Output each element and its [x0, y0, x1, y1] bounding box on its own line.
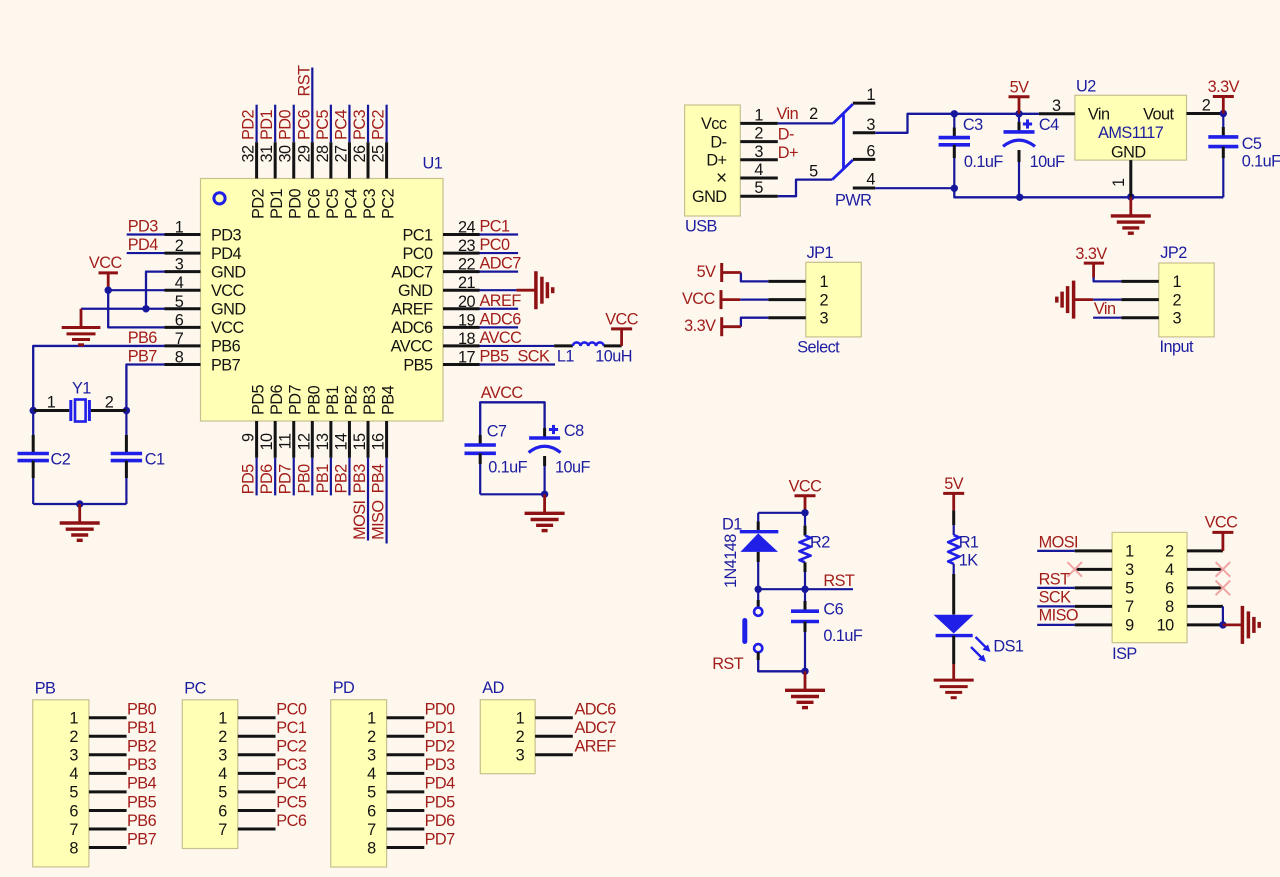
svg-text:PC6: PC6: [305, 188, 323, 219]
svg-text:MOSI: MOSI: [351, 500, 369, 539]
svg-text:32: 32: [240, 145, 258, 163]
U1 pin 21 GND (right): [398, 274, 480, 300]
wire C7 C8 to ground: [480, 493, 544, 495]
svg-text:AVCC: AVCC: [391, 338, 434, 356]
svg-text:5: 5: [218, 784, 227, 802]
capacitor C5: [1208, 114, 1280, 198]
svg-text:2: 2: [1173, 291, 1182, 309]
svg-text:VCC: VCC: [605, 310, 639, 328]
svg-text:4: 4: [69, 765, 78, 783]
svg-text:31: 31: [258, 145, 276, 163]
svg-text:VCC: VCC: [211, 319, 245, 337]
PC pin 5 PC4: [218, 775, 307, 802]
connector USB body: [685, 105, 741, 216]
svg-text:Vcc: Vcc: [701, 115, 727, 133]
U2 pin 1 GND wire: [1110, 160, 1131, 197]
junction ISP ground: [1219, 621, 1226, 628]
power VCC (reset): [789, 477, 823, 513]
JP1 pin 3: [768, 310, 828, 328]
svg-text:ADC7: ADC7: [480, 255, 522, 273]
AD pin 1 ADC6: [516, 701, 617, 728]
svg-text:2: 2: [218, 728, 227, 746]
svg-text:PD6: PD6: [268, 384, 286, 415]
svg-text:4: 4: [175, 274, 184, 292]
PB pin 1 PB0: [69, 701, 156, 728]
wire JP2 pin2 to ground: [1093, 299, 1121, 301]
svg-text:PB4: PB4: [127, 775, 157, 793]
switch pin 4: [853, 170, 876, 188]
svg-text:PB7: PB7: [211, 356, 241, 374]
JP2 pin 1: [1121, 273, 1181, 291]
svg-text:7: 7: [367, 821, 376, 839]
svg-text:PC5: PC5: [276, 793, 307, 811]
U1 pin 10 PD6 (bottom): [258, 384, 286, 457]
net label D-: [778, 126, 794, 144]
svg-text:PB5: PB5: [480, 347, 510, 365]
svg-text:19: 19: [458, 311, 476, 329]
U1 pin 7 PB6 (left): [165, 330, 241, 356]
U1 pin 23 PC0 (right): [402, 236, 510, 263]
wire net PD0 (U1 top pin 30): [277, 105, 295, 143]
power 3.3V (Vout): [1208, 78, 1240, 114]
capacitor C2: [18, 411, 71, 505]
wire net PB0 (U1 bottom pin 12): [295, 458, 313, 496]
svg-text:27: 27: [332, 145, 350, 163]
wire net PC2 (U1 top pin 25): [370, 105, 388, 143]
svg-text:U2: U2: [1076, 77, 1096, 95]
svg-text:3: 3: [516, 747, 525, 765]
svg-text:1: 1: [754, 106, 763, 124]
svg-text:AVCC: AVCC: [481, 384, 524, 402]
svg-text:USB: USB: [685, 218, 717, 236]
svg-text:C6: C6: [823, 601, 843, 619]
wire net SCK (U1 pin 17): [480, 347, 556, 365]
svg-text:7: 7: [69, 821, 78, 839]
svg-text:SCK: SCK: [518, 347, 551, 365]
svg-text:MOSI: MOSI: [1039, 534, 1078, 552]
svg-text:PB4: PB4: [380, 385, 398, 415]
svg-text:PB7: PB7: [127, 830, 157, 848]
svg-text:PB3: PB3: [351, 464, 369, 494]
wire crystal caps to ground: [33, 503, 126, 505]
svg-text:4: 4: [1165, 561, 1174, 579]
svg-text:6: 6: [866, 142, 875, 160]
svg-text:29: 29: [295, 145, 313, 163]
svg-text:7: 7: [218, 821, 227, 839]
svg-text:JP2: JP2: [1160, 244, 1187, 262]
svg-text:4: 4: [866, 170, 875, 188]
svg-text:R2: R2: [810, 534, 830, 552]
svg-text:5V: 5V: [944, 475, 964, 493]
svg-text:18: 18: [458, 330, 476, 348]
wire net PB7 (U1 pin 8): [126, 347, 164, 410]
wire net PD6 (U1 bottom pin 10): [258, 458, 276, 496]
svg-text:PC3: PC3: [361, 188, 379, 219]
switch pin 5 number: [809, 162, 818, 180]
svg-text:PD5: PD5: [240, 464, 258, 495]
svg-text:PD6: PD6: [258, 464, 276, 495]
svg-text:PB7: PB7: [128, 347, 158, 365]
U1 pin 4 VCC (left): [165, 274, 245, 300]
ISP pins 1/2: [1075, 543, 1223, 561]
svg-text:PC2: PC2: [370, 109, 388, 140]
svg-text:PB1: PB1: [314, 464, 332, 494]
wire net PC4 (U1 top pin 27): [332, 105, 350, 143]
svg-text:RST: RST: [712, 655, 744, 673]
svg-text:GND: GND: [398, 282, 433, 300]
JP2 pin 2: [1121, 291, 1181, 309]
wire net MISO (ISP pin9): [1037, 606, 1078, 625]
AD pin 2 ADC7: [516, 719, 617, 746]
svg-text:C8: C8: [564, 422, 584, 440]
wire stub net ADC7: [480, 271, 519, 273]
power 5V (LED): [943, 475, 964, 511]
junction U2 GND node: [1127, 193, 1134, 200]
svg-text:8: 8: [69, 839, 78, 857]
Select label: [797, 339, 840, 357]
wire stub net AREF: [480, 308, 519, 310]
svg-text:PB: PB: [35, 679, 56, 697]
ISP pins 5/6: [1075, 580, 1223, 598]
inductor L1 10uH: [557, 342, 632, 365]
svg-text:5: 5: [1125, 580, 1134, 598]
JP2 label: [1160, 244, 1187, 262]
svg-text:PB6: PB6: [127, 812, 157, 830]
svg-text:RST: RST: [1039, 570, 1071, 588]
svg-text:PB6: PB6: [128, 329, 158, 347]
svg-text:1: 1: [47, 394, 56, 412]
svg-text:PB5: PB5: [403, 356, 433, 374]
svg-text:2: 2: [516, 728, 525, 746]
svg-text:5: 5: [367, 784, 376, 802]
no-connect X (ISP pin6): [1216, 581, 1231, 596]
svg-text:×: ×: [716, 168, 727, 189]
svg-text:PC2: PC2: [380, 188, 398, 219]
svg-text:20: 20: [458, 293, 476, 311]
U1 pin 9 PD5 (bottom): [240, 384, 268, 457]
PC pin 6 PC5: [218, 793, 307, 820]
svg-text:1: 1: [866, 86, 875, 104]
ground (left of U1): [62, 309, 101, 345]
JP1 pin 1: [768, 273, 828, 291]
svg-text:PC3: PC3: [276, 756, 307, 774]
connector JP2 body: [1159, 263, 1214, 337]
junction AVCC ground: [541, 491, 548, 498]
JP2 pin 3: [1121, 310, 1181, 328]
svg-text:R1: R1: [959, 534, 979, 552]
net label AVCC: [481, 384, 524, 402]
resistor R1: [948, 510, 979, 614]
U1 pin 13 PB1 (bottom): [314, 385, 342, 457]
U1 pin 2 PD4 (left): [165, 237, 242, 263]
U1 pin 30 PD0 (top): [277, 142, 305, 219]
wire ISP pin8 to pin10: [1222, 606, 1224, 625]
ISP pins 3/4: [1075, 561, 1223, 579]
svg-text:2: 2: [69, 728, 78, 746]
power VCC (JP1): [682, 290, 740, 309]
U1 pin 11 PD7 (bottom): [277, 384, 305, 457]
svg-text:GND: GND: [211, 263, 246, 281]
svg-text:PD4: PD4: [425, 775, 456, 793]
ISP pins 9/10: [1075, 617, 1223, 635]
U1 pin 27 PC4 (top): [332, 142, 360, 219]
crystal Y1: [33, 380, 126, 422]
U1 pin 8 PB7 (left): [165, 348, 241, 374]
power VCC (ISP pin2): [1205, 514, 1239, 551]
junction C4 top: [1015, 110, 1022, 117]
wire JP1 pin1 to 5V: [741, 273, 768, 282]
U1 pin 32 PD2 (top): [240, 142, 268, 219]
AD pin 3 AREF: [516, 738, 617, 765]
IC U1 body: [201, 179, 444, 422]
svg-text:PC2: PC2: [276, 738, 307, 756]
svg-text:PC3: PC3: [351, 109, 369, 140]
svg-text:3: 3: [754, 143, 763, 161]
svg-text:3: 3: [367, 747, 376, 765]
PC pin 3 PC2: [218, 738, 307, 765]
PD pin 6 PD5: [367, 793, 455, 820]
svg-text:10uF: 10uF: [1030, 153, 1066, 171]
svg-text:6: 6: [1165, 580, 1174, 598]
svg-text:DS1: DS1: [993, 637, 1024, 655]
resistor R2: [799, 513, 830, 589]
svg-text:PC5: PC5: [324, 188, 342, 219]
svg-text:PC1: PC1: [276, 719, 307, 737]
svg-text:6: 6: [175, 311, 184, 329]
svg-text:PC5: PC5: [314, 109, 332, 140]
U2 pin 2 Vout wire: [1187, 97, 1224, 115]
svg-text:PD5: PD5: [425, 793, 456, 811]
ISP pins 7/8: [1075, 598, 1223, 616]
wire L1 to VCC: [604, 344, 622, 347]
svg-text:PD4: PD4: [128, 236, 159, 254]
svg-text:PC1: PC1: [402, 226, 433, 244]
U1 pin-1 indicator circle: [214, 193, 225, 204]
svg-text:AD: AD: [482, 679, 504, 697]
svg-text:PD2: PD2: [425, 738, 456, 756]
svg-text:2: 2: [1202, 97, 1211, 115]
svg-text:PC6: PC6: [276, 812, 307, 830]
svg-text:PB0: PB0: [127, 701, 157, 719]
svg-text:PB0: PB0: [295, 464, 313, 494]
svg-text:4: 4: [218, 765, 227, 783]
svg-text:PB4: PB4: [370, 464, 388, 494]
U2 pin 3 Vin wire: [1039, 97, 1075, 115]
svg-text:PB1: PB1: [324, 385, 342, 415]
power 3.3V (JP2): [1075, 245, 1107, 278]
connector AD body: [480, 700, 535, 774]
wire net MOSI (ISP pin1): [1037, 534, 1078, 552]
svg-text:6: 6: [69, 802, 78, 820]
svg-text:PC0: PC0: [480, 236, 511, 254]
junction Vout node: [1220, 110, 1227, 117]
PWR label: [835, 192, 871, 210]
svg-text:MISO: MISO: [1039, 606, 1078, 624]
ISP label: [1112, 645, 1137, 663]
wire VCC to D1: [758, 513, 805, 522]
U1 pin 5 GND (left): [165, 293, 246, 319]
svg-text:VCC: VCC: [89, 254, 123, 272]
svg-text:13: 13: [314, 433, 332, 451]
svg-text:10uF: 10uF: [555, 459, 591, 477]
svg-text:5V: 5V: [1010, 78, 1030, 96]
wire net PD5 (U1 bottom pin 9): [240, 458, 258, 496]
svg-text:PWR: PWR: [835, 192, 871, 210]
svg-text:10: 10: [1157, 617, 1175, 635]
JP1 pin 2: [768, 291, 828, 309]
svg-text:C1: C1: [145, 451, 165, 469]
svg-text:VCC: VCC: [682, 290, 716, 308]
svg-text:24: 24: [458, 219, 476, 237]
wire net PB1 (U1 bottom pin 13): [314, 458, 332, 496]
svg-text:PD7: PD7: [287, 384, 305, 415]
svg-text:12: 12: [295, 433, 313, 451]
svg-text:5: 5: [175, 293, 184, 311]
PB pin 2 PB1: [69, 719, 156, 746]
svg-text:PD4: PD4: [211, 245, 242, 263]
wire VCC down to U1 pin 6: [108, 290, 164, 327]
svg-text:3: 3: [1125, 561, 1134, 579]
svg-text:8: 8: [1165, 598, 1174, 616]
wire AVCC rail: [480, 402, 544, 445]
svg-text:2: 2: [809, 105, 818, 123]
wire net RST: [758, 572, 855, 590]
svg-text:PC4: PC4: [342, 188, 360, 219]
svg-text:PC0: PC0: [276, 701, 307, 719]
PC pin 1 PC0: [218, 701, 307, 728]
svg-text:ADC7: ADC7: [391, 263, 433, 281]
U2 pin names: [1088, 106, 1175, 162]
svg-text:PD3: PD3: [425, 756, 456, 774]
wire net PD3 (U1 pin 1): [127, 218, 165, 236]
svg-text:5: 5: [69, 784, 78, 802]
svg-text:5: 5: [809, 162, 818, 180]
svg-text:VCC: VCC: [789, 477, 823, 495]
svg-text:PD6: PD6: [425, 812, 456, 830]
svg-text:JP1: JP1: [807, 244, 834, 262]
svg-text:14: 14: [332, 433, 350, 451]
wire net Vin (USB Vcc to switch): [777, 105, 834, 123]
svg-text:11: 11: [277, 433, 295, 449]
connector PD body: [331, 700, 387, 867]
wire net PD4 (U1 pin 2): [127, 236, 165, 254]
PC pin 2 PC1: [218, 719, 307, 746]
svg-text:VCC: VCC: [211, 282, 245, 300]
svg-text:7: 7: [1125, 598, 1134, 616]
PD pin 7 PD6: [367, 812, 455, 839]
PB label: [35, 679, 56, 697]
U1 pin 3 GND (left): [165, 256, 246, 282]
svg-text:3: 3: [820, 310, 829, 328]
capacitor C6: [791, 589, 863, 671]
capacitor C1: [111, 411, 165, 505]
svg-text:16: 16: [370, 433, 388, 451]
svg-text:PD2: PD2: [240, 109, 258, 140]
U1 pin 25 PC2 (top): [370, 142, 398, 219]
wire net PB4 (U1 bottom pin 16): [370, 458, 388, 544]
wire GND U1 pin 3 to pin 5: [146, 272, 165, 309]
svg-text:Select: Select: [797, 339, 840, 357]
svg-text:C4: C4: [1039, 116, 1059, 134]
svg-text:9: 9: [240, 433, 258, 442]
svg-text:3: 3: [69, 747, 78, 765]
wire net RST (ISP pin5): [1037, 570, 1075, 588]
svg-text:PD: PD: [333, 679, 355, 697]
svg-text:5: 5: [754, 179, 763, 197]
U1 reference designator: [423, 155, 443, 173]
svg-text:30: 30: [277, 145, 295, 163]
U1 pin 22 ADC7 (right): [391, 255, 521, 282]
svg-text:AREF: AREF: [391, 301, 433, 319]
svg-text:PD3: PD3: [128, 218, 159, 236]
svg-text:1: 1: [367, 710, 376, 728]
svg-text:23: 23: [458, 237, 476, 255]
switch pin 1: [853, 86, 876, 104]
connector JP1 body: [806, 262, 862, 337]
junction D1-button: [755, 586, 762, 593]
U1 pin 6 VCC (left): [165, 311, 245, 337]
PB pin 5 PB4: [69, 775, 156, 802]
PC pin 4 PC3: [218, 756, 307, 783]
junction crystal ground: [76, 500, 83, 507]
PD pin 8 PD7: [367, 830, 455, 857]
switch pin 2 number: [809, 105, 818, 123]
svg-text:PB2: PB2: [127, 738, 157, 756]
USB pin 4 pin-name: [716, 161, 778, 189]
svg-text:3: 3: [1052, 97, 1061, 115]
U2 reference designator: [1076, 77, 1096, 95]
svg-text:8: 8: [175, 348, 184, 366]
ground (JP2): [1057, 281, 1093, 319]
svg-text:3: 3: [175, 256, 184, 274]
svg-text:3: 3: [1173, 310, 1182, 328]
PB pin 8 PB7: [69, 830, 156, 857]
junction GND pins: [142, 305, 149, 312]
switch PWR link: [842, 114, 845, 168]
U1 pin 20 AREF (right): [391, 292, 521, 319]
svg-text:2: 2: [1165, 543, 1174, 561]
PC label: [184, 679, 206, 697]
USB pin 3 pin-name: [706, 143, 777, 170]
svg-text:GND: GND: [211, 301, 246, 319]
junction at VCC stem: [105, 287, 112, 294]
junction C3 bottom: [951, 185, 958, 192]
ground (AVCC caps): [525, 494, 565, 530]
svg-text:PD1: PD1: [268, 188, 286, 219]
ground (crystal): [60, 504, 100, 540]
wire net PD1 (U1 top pin 31): [258, 105, 276, 143]
junction VCC-R2: [801, 509, 808, 516]
svg-text:AREF: AREF: [480, 292, 522, 310]
svg-text:10uH: 10uH: [595, 347, 632, 365]
svg-text:PD2: PD2: [250, 188, 268, 219]
svg-text:3.3V: 3.3V: [1208, 78, 1240, 96]
svg-text:U1: U1: [423, 155, 443, 173]
PC pin 7 PC6: [218, 812, 307, 839]
svg-text:AVCC: AVCC: [480, 329, 523, 347]
svg-text:Vout: Vout: [1143, 106, 1174, 124]
power 3.3V (JP1): [684, 317, 741, 336]
svg-text:2: 2: [105, 394, 114, 412]
PD label: [333, 679, 355, 697]
wire USB GND to switch: [778, 180, 832, 197]
net label D+: [778, 144, 798, 162]
switch pin 3: [853, 116, 876, 134]
svg-text:Vin: Vin: [1094, 300, 1116, 318]
wire switch pin4 to rail: [875, 187, 954, 189]
ground (reset): [785, 671, 825, 707]
svg-text:PB2: PB2: [342, 385, 360, 415]
